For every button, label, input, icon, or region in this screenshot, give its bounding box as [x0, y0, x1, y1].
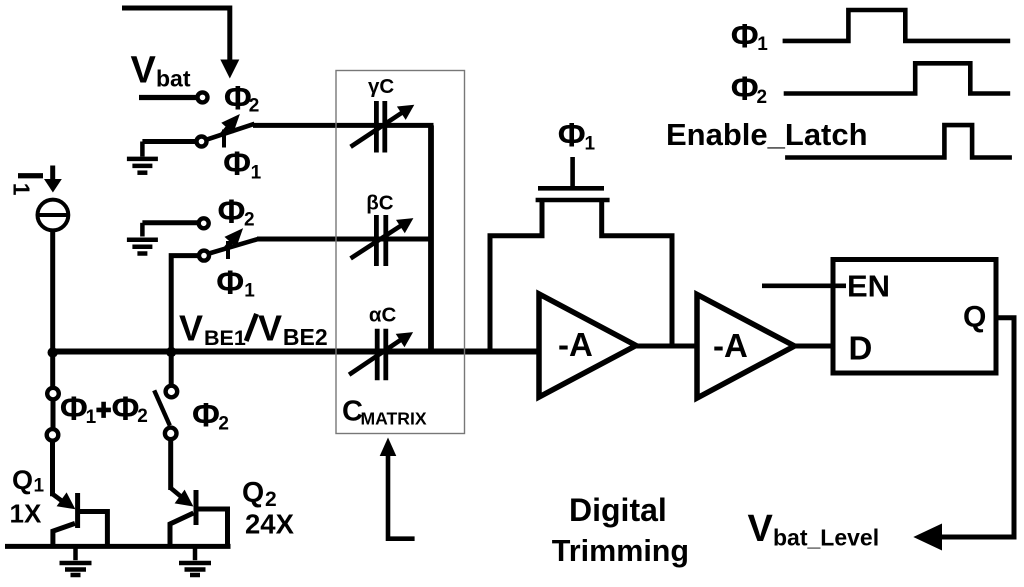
transistor Q1 emitter to rail	[53, 523, 75, 546]
svg-text:Φ: Φ	[558, 116, 586, 154]
transistor Q2 base bar	[194, 490, 199, 525]
svg-text:2: 2	[249, 96, 260, 117]
wire S1 output to cap matrix gammaC	[253, 123, 434, 128]
MOS gate stub	[570, 157, 575, 188]
switch S2 arm tick	[226, 241, 230, 259]
ground at S1	[127, 142, 158, 173]
wire Vbat stub	[139, 95, 196, 100]
transistor Q1 collector	[78, 512, 108, 547]
contact circle Q1 top	[47, 388, 59, 400]
svg-text:2: 2	[244, 209, 255, 230]
wire S2 Phi1 contact to node	[171, 256, 199, 352]
svg-text:bat: bat	[156, 66, 191, 92]
wire Q2 contact down	[168, 440, 173, 491]
svg-text:βC: βC	[366, 192, 394, 215]
transistor Q1 emitter lead arrow	[53, 494, 65, 503]
svg-text:αC: αC	[369, 304, 397, 327]
current source I1	[38, 200, 69, 231]
svg-text:Φ: Φ	[216, 264, 244, 302]
svg-text:1: 1	[251, 162, 262, 183]
transistor Q2 emitter lead arrow	[171, 488, 182, 497]
transistor Q1 base bar	[75, 493, 80, 528]
wire into current source	[50, 166, 55, 183]
transistor Q2 collector	[196, 509, 228, 546]
svg-text:EN: EN	[847, 268, 890, 303]
svg-text:Φ: Φ	[224, 79, 252, 117]
arrow trimming into C matrix	[388, 454, 415, 539]
slash of VBE label	[246, 314, 256, 341]
wire S2 output to cap matrix betaC	[257, 237, 433, 242]
MOS right leg	[602, 200, 672, 346]
switch S2 arm	[209, 239, 258, 254]
svg-text:Φ: Φ	[192, 397, 220, 435]
waveform Enable_Latch	[785, 125, 1012, 157]
wire cap bus vertical	[428, 125, 434, 351]
wire node to Q1 switch	[50, 352, 55, 388]
svg-text:BE1: BE1	[204, 326, 246, 350]
MOS left leg	[490, 200, 542, 352]
svg-text:D: D	[849, 330, 873, 367]
switch S2 contact Phi1	[199, 251, 209, 261]
svg-text:2: 2	[218, 414, 229, 435]
svg-text:Φ: Φ	[218, 193, 246, 231]
svg-text:Digital: Digital	[569, 492, 667, 528]
svg-text:V: V	[179, 308, 203, 349]
svg-text:Trimming: Trimming	[552, 534, 689, 568]
latch box	[833, 260, 996, 374]
svg-text:2: 2	[757, 87, 768, 108]
switch S1 arm	[206, 124, 255, 140]
svg-text:Φ: Φ	[731, 70, 759, 108]
op-amp A1	[539, 294, 636, 397]
wire node to Q2 switch	[169, 352, 174, 386]
svg-text:Enable_Latch: Enable_Latch	[666, 117, 868, 152]
wire Q1 contact down	[50, 441, 55, 496]
svg-text:Φ: Φ	[731, 18, 759, 56]
capacitor betaC arrow	[351, 223, 405, 258]
svg-text:γC: γC	[368, 75, 394, 98]
capacitor gammaC arrow	[351, 110, 406, 147]
svg-text:Q: Q	[242, 477, 264, 509]
waveform Phi1	[783, 10, 1011, 41]
MOS channel plate	[536, 198, 610, 203]
svg-text:1: 1	[86, 407, 97, 428]
switch S2 contact Phi2	[199, 218, 209, 228]
svg-text:2: 2	[137, 406, 148, 427]
svg-text:Φ: Φ	[112, 390, 140, 428]
capacitor gammaC plates	[374, 101, 379, 153]
wire A2 output to latch D	[795, 344, 836, 349]
svg-text:V: V	[131, 50, 157, 92]
contact circle Q2 top	[166, 386, 178, 398]
ground below Q2	[179, 546, 211, 575]
capacitor alphaC plates	[375, 329, 380, 381]
junction node right	[166, 347, 176, 357]
svg-text:I1: I1	[9, 171, 52, 196]
arrowhead Vbat_Level	[913, 524, 942, 551]
svg-text:MATRIX: MATRIX	[361, 408, 427, 428]
wire current source to main node	[50, 230, 55, 352]
MOS gate plate	[538, 186, 604, 191]
junction node left	[48, 347, 58, 357]
switch S1 contact Phi2	[198, 92, 208, 102]
capacitor alphaC arrow	[349, 337, 405, 375]
wire ground to S1 contact Phi1	[142, 139, 196, 144]
wire bottom rail	[5, 544, 231, 549]
svg-text:-A: -A	[713, 327, 748, 364]
svg-text:bat_Level: bat_Level	[773, 525, 879, 551]
plus sign	[96, 402, 111, 418]
ground at S2	[127, 223, 158, 254]
ground below Q1	[60, 546, 92, 575]
contact circle Q1 bottom	[47, 429, 59, 441]
wire main signal path	[53, 349, 539, 355]
switch S1 contact Phi1	[197, 137, 207, 147]
label I1 (rotated)	[9, 171, 52, 196]
wire EN input	[762, 283, 846, 288]
waveform Phi2	[784, 63, 1011, 93]
svg-text:-A: -A	[558, 326, 593, 363]
svg-text:BE2: BE2	[283, 324, 328, 350]
switch S1 arm tick	[222, 130, 226, 148]
switch S2 arm arrowhead	[225, 228, 244, 247]
capacitor betaC plates	[374, 215, 379, 266]
svg-text:1X: 1X	[10, 499, 42, 529]
svg-text:V: V	[748, 508, 774, 550]
svg-text:Q: Q	[12, 465, 33, 495]
svg-text:1: 1	[585, 134, 596, 155]
svg-text:1: 1	[757, 34, 768, 55]
switch blade Q2 (open)	[154, 390, 170, 425]
svg-text:V: V	[258, 308, 282, 349]
op-amp A2	[697, 295, 795, 399]
arrow down into switch S1	[220, 60, 239, 79]
switch S1 arm arrowhead	[221, 114, 240, 134]
transistor Q2 emitter to rail	[170, 513, 194, 546]
svg-text:1: 1	[244, 280, 255, 301]
wire top feed horizontal and corner down	[122, 8, 230, 61]
wire ground to S2 contact Phi2	[142, 220, 198, 225]
svg-text:1: 1	[34, 476, 45, 497]
svg-text:Q: Q	[963, 301, 986, 334]
svg-text:Φ: Φ	[60, 390, 88, 428]
svg-text:24X: 24X	[245, 509, 295, 540]
svg-text:Φ: Φ	[223, 145, 251, 183]
contact circle Q2 bottom	[165, 428, 177, 440]
C matrix box	[336, 71, 465, 434]
arrowhead into current source I1	[44, 179, 62, 193]
wire between Q1 contacts	[51, 399, 56, 429]
wire A1 output	[636, 344, 697, 349]
wire Q output feedback	[935, 318, 1014, 537]
